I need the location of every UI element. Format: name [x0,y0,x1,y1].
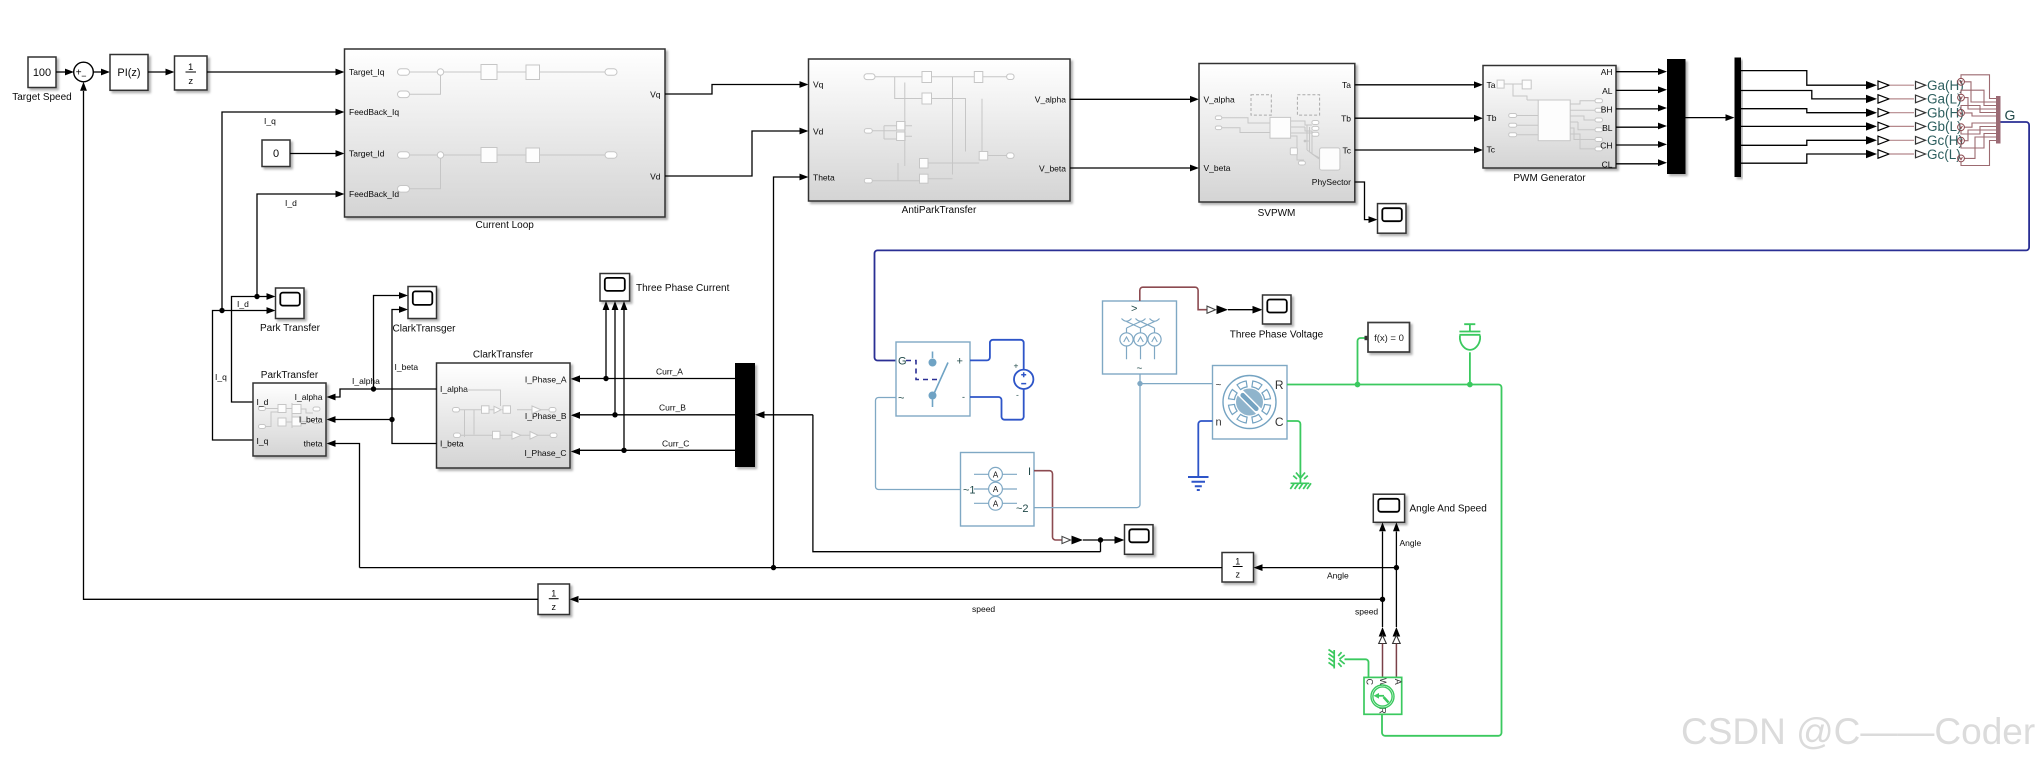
svg-text:n: n [1216,417,1222,429]
maroon wires from rotary sensor W and A [1383,644,1397,678]
svg-text:+: + [1014,361,1019,371]
AntiParkTransfer preview diagram [864,72,1014,184]
svg-text:100: 100 [33,67,51,79]
PMSM motor block [1213,366,1288,440]
constant block 100 (Target Speed) [28,57,56,88]
scope Three Phase Voltage [1263,295,1292,324]
goto arrow pairs and labels Ga(H)..Gc(L) [1866,78,1964,162]
svg-text:−: − [81,71,86,81]
svg-text:AH: AH [1601,67,1613,77]
wire 1/z to Target_Iq [207,71,336,73]
input arrows into ClarkTransfer right edge [571,376,580,383]
PWM Generator preview diagram [1497,80,1602,151]
svg-text:1: 1 [551,589,556,599]
scope Angle And Speed [1373,494,1404,522]
sum junction [74,62,94,82]
scope PhySector [1355,182,1369,220]
wire Tb [1355,117,1474,119]
svg-text:Park Transfer: Park Transfer [260,323,321,334]
unit delay 1/z (Angle) [1222,553,1254,583]
green wire motor R to solver/housing and down [1287,385,1502,736]
svg-text:I_q: I_q [215,372,227,382]
svg-text:Curr_A: Curr_A [656,367,683,377]
svg-text:Ta: Ta [1342,80,1351,90]
svg-text:I_alpha: I_alpha [295,392,323,402]
wire I_q feedback (FeedBack_Iq) [222,112,336,311]
wire speed feedback to sum [84,91,539,599]
svg-text:CSDN @C——Coder: CSDN @C——Coder [1681,711,2035,752]
wire ~2 of current sensor up to motor node [1034,384,1140,508]
svg-text:C: C [1365,679,1375,686]
svg-text:I_beta: I_beta [440,439,464,449]
svg-text:FeedBack_Id: FeedBack_Id [349,189,399,199]
svg-text:f(x) = 0: f(x) = 0 [1374,333,1404,344]
scope Park Transfer [276,288,305,319]
three-phase current sensor block [961,453,1035,527]
maroon wire I out of current sensor [1034,471,1062,540]
scope current I [1125,525,1154,555]
svg-text:I_Phase_A: I_Phase_A [525,375,567,385]
svg-text:Vq: Vq [813,80,824,90]
voltage sensor cluster wires to G bus [1961,75,1996,166]
motor icon [1223,376,1276,429]
voltage sensor circles v [1958,78,1965,161]
DC voltage source [1014,370,1033,389]
maroon wire voltage sensor V out to scope [1140,287,1207,310]
svg-text:z: z [1235,570,1240,580]
wire speed from sensor to 1/z [579,598,1383,600]
svg-text:V_beta: V_beta [1039,164,1066,174]
svg-text:Angle: Angle [1400,538,1422,548]
svg-text:-: - [1016,390,1019,400]
electrical reference ground [1188,477,1209,490]
solver configuration block f(x)=0 [1368,323,1410,353]
svg-text:I: I [1028,466,1031,478]
wire PI(z) to unit delay [148,71,166,73]
svg-text:BL: BL [1602,123,1613,133]
green wire up to solver configuration [1358,338,1367,385]
switch contact icon [929,352,948,408]
svg-text:Tc: Tc [1487,144,1496,154]
svg-text:ParkTransfer: ParkTransfer [261,370,319,381]
svg-text:speed: speed [1355,607,1378,617]
svg-text:I_beta: I_beta [395,362,419,372]
svg-text:1: 1 [1235,557,1240,567]
svg-text:V_alpha: V_alpha [1204,95,1235,105]
wire Angle from sensor to 1/z [1263,567,1397,569]
wire mux to demux [1686,117,1726,119]
svg-text:1: 1 [188,62,193,73]
unit delay 1/z (speed) [538,584,570,615]
svg-text:Ta: Ta [1487,80,1496,90]
wire motor n to electrical ground [1198,421,1212,477]
svg-text:Curr_B: Curr_B [659,403,686,413]
svg-text:CH: CH [1600,141,1612,151]
svg-text:AntiParkTransfer: AntiParkTransfer [902,205,977,216]
wire measured currents into demux bar [765,414,813,416]
svg-text:Ga(L): Ga(L) [1927,92,1962,107]
wire V_alpha to SVPWM [1070,98,1190,100]
green wire sensor C to rotational reference 2 [1345,659,1369,677]
svg-text:~: ~ [1137,364,1143,375]
svg-text:I_Phase_C: I_Phase_C [524,448,566,458]
svg-text:0: 0 [273,148,279,160]
svg-text:AL: AL [1602,86,1613,96]
wire 100 to sum [56,71,65,73]
controlled switch block [896,342,970,416]
svg-text:Current Loop: Current Loop [476,220,535,231]
svg-text:Gc(L): Gc(L) [1927,147,1961,162]
wire 0 to Target_Id [290,153,336,155]
svg-text:~2: ~2 [1016,503,1029,515]
svg-text:A: A [993,485,999,494]
svg-text:I_alpha: I_alpha [440,384,468,394]
wire theta into ParkTransfer [336,444,360,568]
wire I_beta: ClarkTransfer out to ParkTransfer and ClarkTransger scope [392,310,437,444]
ideal rotational motion sensor block [1364,677,1402,714]
svg-text:Vd: Vd [650,171,661,181]
svg-text:Target Speed: Target Speed [12,92,72,103]
SVPWM preview diagram [1215,95,1340,170]
subsystem SVPWM [1199,64,1355,203]
svg-text:C: C [1275,415,1284,429]
svg-text:z: z [551,602,556,612]
wires sensor W/A up to scope [1382,532,1384,628]
wire V_beta to SVPWM [1070,167,1190,169]
svg-text:V_alpha: V_alpha [1035,95,1066,105]
wires from Curr lines up to Three Phase Current scope [605,310,607,379]
unit delay 1/z (q current ref) [175,56,208,90]
svg-text:Vd: Vd [813,126,824,136]
sensor gauge icon [1371,685,1394,708]
svg-text:~: ~ [898,393,904,405]
svg-text:I_d: I_d [285,198,297,208]
svg-text:G: G [2005,107,2016,123]
subsystem ClarkTransfer [437,363,571,468]
svg-text:I_alpha: I_alpha [352,376,380,386]
svg-text:R: R [1275,378,1284,392]
three-phase voltage sensor block [1103,301,1177,374]
svg-text:I_q: I_q [257,436,269,446]
svg-text:ClarkTransger: ClarkTransger [393,324,457,335]
svg-text:I_d: I_d [237,299,249,309]
green wire motor C to rotational reference [1287,421,1300,483]
mechanical rotational reference (motor C) [1290,473,1311,490]
wire Theta branch up to AntiParkTransfer [774,177,800,568]
wire voltage sensor ~ to node [1140,374,1213,384]
PS-Simulink converter on I [1062,536,1071,543]
svg-text:>: > [1131,303,1137,315]
constant block 0 (Target_Id) [262,140,290,167]
svg-text:G: G [898,356,907,368]
current demux bar [735,363,755,467]
svg-text:FeedBack_Iq: FeedBack_Iq [349,107,399,117]
svg-text:Vq: Vq [650,89,661,99]
svg-text:Three Phase Voltage: Three Phase Voltage [1230,330,1324,341]
wire switch + to DC source [970,340,1024,370]
wire Vq: Current Loop to AntiParkTransfer [665,85,800,95]
wires AH..CL to mux [1616,71,1658,73]
svg-text:Tb: Tb [1487,113,1497,123]
G bus bar [1996,96,2001,144]
subsystem Current Loop [345,49,666,217]
wire switch - to DC source bottom [970,389,1024,419]
wire switch ~ down to current sensor ~1 [876,398,961,490]
wire 1/z out to theta (ParkTransfer / AntiParkTransfer) [360,567,1223,569]
svg-text:ClarkTransfer: ClarkTransfer [473,350,534,361]
svg-text:Tc: Tc [1343,146,1352,156]
svg-text:-: - [962,392,965,402]
svg-text:PhySector: PhySector [1312,177,1351,187]
wire I_alpha: ClarkTransfer out to ParkTransfer and ClarkTransger scope [374,296,437,390]
switch gate dashed path [906,361,938,380]
subsystem PWM Generator [1483,66,1616,169]
mechanical housing (cup) symbol [1459,324,1480,384]
svg-text:PI(z): PI(z) [117,67,140,79]
svg-text:z: z [188,76,193,87]
svg-text:Gb(L): Gb(L) [1927,119,1962,134]
svg-text:~1: ~1 [963,485,976,497]
scope Three Phase Current [600,274,630,302]
wire Tc [1355,149,1474,151]
mechanical rotational reference 2 [1329,650,1345,669]
wire I_d feedback (FeedBack_Id) [257,194,336,297]
ClarkTransfer preview diagram [453,390,558,439]
wire sum to PI(z) [93,71,101,73]
svg-text:I_d: I_d [257,397,269,407]
svg-text:Tb: Tb [1341,114,1351,124]
wire Curr_A [580,378,735,380]
svg-text:Target_Iq: Target_Iq [349,67,385,77]
mux bar [1667,59,1686,174]
svg-text:Angle: Angle [1327,571,1349,581]
input arrows into ParkTransfer right edge [327,394,336,401]
svg-text:+: + [957,356,963,368]
wire Curr_B [580,414,735,416]
wire to Park Transfer scope input 2 [213,311,267,441]
svg-text:I_beta: I_beta [299,415,323,425]
subsystem AntiParkTransfer [809,59,1071,201]
svg-text:PWM Generator: PWM Generator [1513,173,1586,184]
svg-text:A: A [1393,679,1403,685]
svg-text:Curr_C: Curr_C [662,439,689,449]
subsystem ParkTransfer (mirrored) [253,383,326,456]
svg-text:Theta: Theta [813,172,835,182]
scope ClarkTransger [408,287,437,319]
svg-text:Three Phase Current: Three Phase Current [636,283,730,294]
svg-text:Angle And Speed: Angle And Speed [1410,504,1487,515]
svg-text:SVPWM: SVPWM [1258,208,1296,219]
PS-Simulink converters below [1379,627,1387,637]
svg-text:theta: theta [304,439,323,449]
svg-text:V_beta: V_beta [1204,163,1231,173]
svg-text:speed: speed [972,604,995,614]
demux out wires with steps [1741,71,1866,86]
svg-text:I_Phase_B: I_Phase_B [525,411,567,421]
svg-text:A: A [993,470,999,479]
svg-text:I_q: I_q [264,116,276,126]
ParkTransfer preview diagram [259,403,321,429]
svg-text:Target_Id: Target_Id [349,149,385,159]
navy wire G bus to switch gate [875,122,2030,361]
svg-text:~: ~ [1216,380,1222,391]
wire Vd: Current Loop to AntiParkTransfer [665,131,800,176]
Current Loop preview diagram [398,65,618,193]
demux bar [1735,58,1742,178]
svg-text:CL: CL [1602,160,1613,170]
wire to Park Transfer scope input 1 [232,297,267,403]
svg-text:BH: BH [1601,105,1613,115]
PI(z) discrete PID block [110,55,148,91]
wire Ta [1355,84,1474,86]
svg-text:A: A [993,499,999,508]
wire Curr_C [580,449,735,451]
